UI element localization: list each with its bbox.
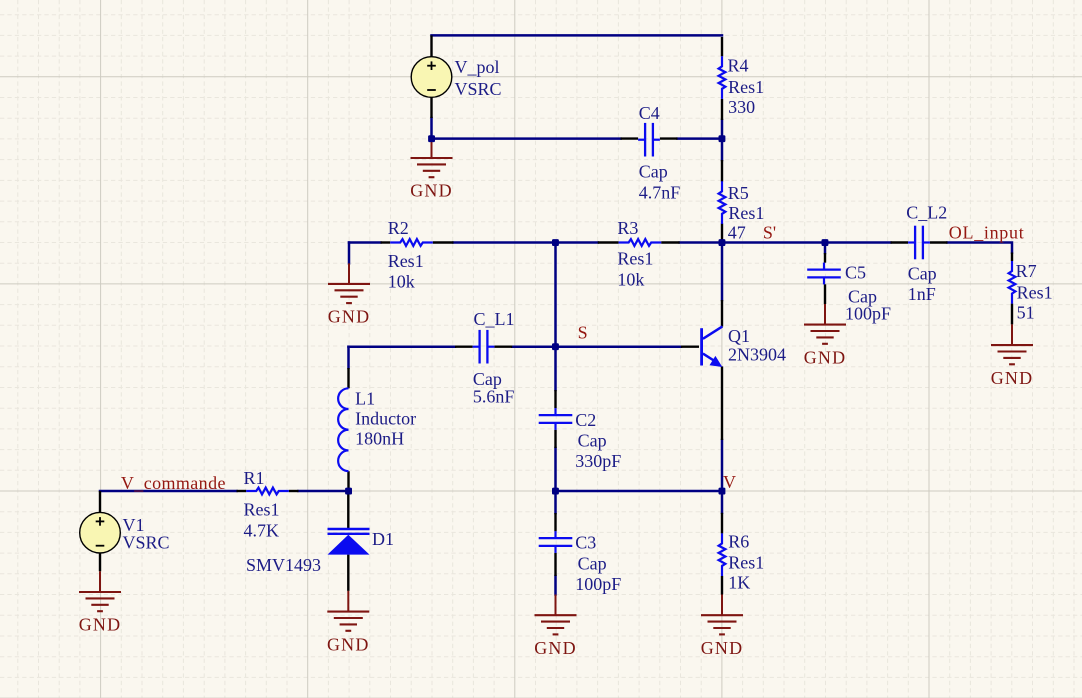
ground GND under R2 [348,263,350,284]
wire V_pol bottom to GND junction [430,118,433,139]
svg-text:R6: R6 [728,532,749,552]
capacitor C_L1 [473,346,480,348]
svg-text:Cap: Cap [578,554,607,574]
resistor R6 [719,533,726,576]
svg-text:GND: GND [534,638,577,658]
svg-text:Cap: Cap [908,264,937,284]
pin R7 bottom [1011,304,1013,325]
svg-text:SMV1493: SMV1493 [246,555,321,575]
svg-text:L1: L1 [355,389,375,409]
svg-text:S: S [578,323,588,343]
svg-text:GND: GND [804,347,847,367]
wire collector node down [721,243,724,301]
capacitor C3 [554,531,556,538]
pin V_pol bottom [430,98,432,119]
svg-text:C2: C2 [575,410,596,430]
inductor L1 [338,388,348,471]
pin C4 left [621,137,639,139]
svg-text:C_L2: C_L2 [906,203,947,223]
svg-text:VSRC: VSRC [123,533,170,553]
pin C_L2 right [930,241,948,243]
svg-text:180nH: 180nH [355,429,404,449]
wire C_L1 left to L1 corner [349,345,456,348]
svg-text:47: 47 [728,222,746,242]
pin V_pol top [430,35,432,57]
wire V node down to R6 [721,491,724,513]
svg-text:GND: GND [328,307,371,327]
capacitor C2 [554,408,556,415]
pin C_L1 right [494,346,512,348]
pin R6 top [721,513,723,534]
wire R3 right to collector node [680,241,722,244]
junction R1/L1/D1 node [345,488,352,495]
resistor R1 [246,488,289,495]
svg-text:C3: C3 [575,533,596,553]
wire R4 bottom to node [721,120,724,139]
svg-text:OL_input: OL_input [949,223,1025,243]
capacitor C_L2 [908,241,915,243]
svg-text:Res1: Res1 [244,500,280,520]
pin R5 bottom [721,224,723,243]
junction V_pol GND node [428,135,435,142]
junction bus at C5 [822,239,829,246]
svg-text:Res1: Res1 [728,203,764,223]
svg-text:V: V [723,472,736,492]
svg-text:10k: 10k [617,270,644,290]
transistor Q1 [700,328,703,365]
pin R3 left [598,241,619,243]
pin R3 right [661,241,680,243]
svg-text:100pF: 100pF [575,574,621,594]
svg-text:Cap: Cap [578,431,607,451]
svg-text:D1: D1 [372,529,394,549]
wire emitter column to V node [721,440,724,491]
capacitor C5 [823,263,825,270]
wire C2 bottom to V-wire junction [554,448,557,491]
pin C4 right [660,137,678,139]
junction bus at S column [552,239,559,246]
svg-text:C5: C5 [845,263,866,283]
pin R5 top [721,160,723,182]
svg-text:C4: C4 [639,103,660,123]
pin C3 top [554,513,556,531]
wire top bus V_pol to R4 [432,34,723,37]
svg-text:5.6nF: 5.6nF [473,387,515,407]
wire node to R5 top [721,139,724,160]
svg-text:Q1: Q1 [728,326,750,346]
wire L1 corner vertical [347,347,350,368]
pin C3 bottom [554,553,556,576]
svg-text:330: 330 [728,97,755,117]
pin V1 bottom [99,553,101,572]
pin R1 left [237,490,247,492]
svg-text:GND: GND [991,368,1034,388]
ground GND under V_pol [431,139,433,158]
wire C_L2 to R7 corner [948,243,1013,253]
wire R2 left corner down to GND [348,243,351,264]
svg-text:R4: R4 [728,56,749,76]
pin C2 bottom [554,430,556,448]
svg-text:2N3904: 2N3904 [728,345,786,365]
pin R2 left [381,241,391,243]
svg-text:S': S' [763,223,776,243]
pin Q1 base [681,346,699,348]
resistor R4 [719,56,726,99]
wire y138 from V_pol GND node to C4 [432,137,621,140]
wire junction down to C3 [554,491,557,513]
svg-text:Res1: Res1 [728,553,764,573]
pin D1 bottom [347,555,349,591]
voltage source V1 [80,512,121,553]
svg-text:Cap: Cap [639,162,668,182]
svg-text:GND: GND [701,638,744,658]
wire junction to R3 left [556,241,598,244]
wire C4 to R4/R5 node [678,137,723,140]
pin C5 top [824,253,826,263]
wire V net junction to V node [556,490,723,493]
pin C5 bottom [824,284,826,304]
wire C5 top [824,243,827,254]
pin Q1 collector [721,300,723,327]
junction R4/R5 node [719,135,726,142]
ground GND under R6 [721,595,723,616]
svg-text:R1: R1 [244,468,265,488]
svg-text:Res1: Res1 [388,251,424,271]
svg-text:4.7nF: 4.7nF [639,183,681,203]
wire bus down from junction to S node [554,243,557,347]
ground GND under C5 [824,304,826,325]
voltage source V_pol [411,57,452,98]
svg-text:10k: 10k [388,272,415,292]
junction S node [552,343,559,350]
capacitor C4 [638,139,645,141]
pin R4 top [721,37,723,56]
svg-text:Res1: Res1 [1017,283,1053,303]
svg-text:1nF: 1nF [908,284,936,304]
svg-text:4.7K: 4.7K [244,521,280,541]
pin L1 top [347,368,349,388]
wire R1 right to D1/L1 junction [299,490,349,493]
wire S column down to C2 [554,347,557,390]
resistor R5 [719,181,726,224]
svg-text:VSRC: VSRC [455,79,502,99]
svg-text:R3: R3 [617,218,638,238]
wire S node horizontal C_L1 to Q1 base [512,345,681,348]
pin Q1 emitter [721,366,723,440]
pin D1 top [347,491,349,528]
pin R7 top [1011,253,1013,262]
pin C_L1 left [455,346,473,348]
pin L1 bottom [347,471,349,491]
junction C2/C3 node [552,488,559,495]
svg-text:V_commande: V_commande [121,473,226,493]
ground GND under D1 [347,591,349,612]
svg-text:Res1: Res1 [617,249,653,269]
svg-text:330pF: 330pF [575,451,621,471]
ground GND under R7 [1011,324,1013,345]
resistor R7 [1009,261,1016,304]
svg-text:V_pol: V_pol [455,57,500,77]
svg-text:1K: 1K [728,573,750,593]
ground GND under C3 [555,595,557,616]
wire V1 to R1 V_commande [100,490,237,493]
svg-text:Inductor: Inductor [355,409,416,429]
junction bus at collector [719,239,726,246]
resistor R2 [390,239,433,246]
wire R2 left segment [349,241,381,244]
junction V node [719,488,726,495]
pin R1 right [289,490,299,492]
pin C2 top [554,390,556,408]
svg-text:C_L1: C_L1 [474,309,515,329]
pin C_L2 left [891,241,909,243]
svg-text:100pF: 100pF [845,303,891,323]
diode D1 varactor [328,528,370,530]
svg-text:R7: R7 [1016,261,1037,281]
resistor R3 [619,239,662,246]
wire C3 bottom to GND [554,576,557,595]
ground GND under V1 [99,571,101,592]
svg-text:GND: GND [410,181,453,201]
wire C5 node to C_L2 [825,241,891,244]
pin R4 bottom [721,99,723,120]
svg-text:R5: R5 [728,183,749,203]
svg-text:Res1: Res1 [728,77,764,97]
pin R6 bottom [721,576,723,595]
svg-text:GND: GND [79,615,122,635]
svg-text:51: 51 [1017,303,1035,323]
pin V1 top [99,491,101,513]
pin R2 right [433,241,454,243]
wire S-prime segment collector node to C5 node [722,241,825,244]
wire R2 to S-column junction [454,241,556,244]
svg-text:R2: R2 [388,218,409,238]
svg-text:GND: GND [327,634,370,654]
